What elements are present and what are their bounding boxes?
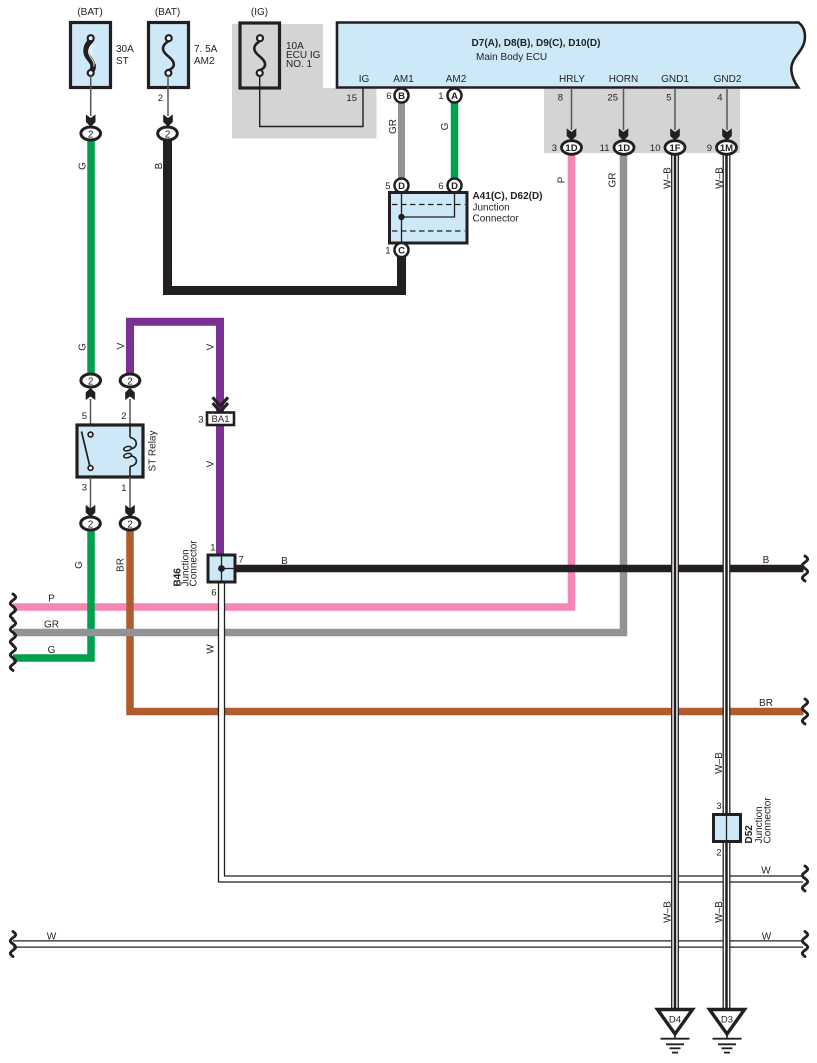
fuse 10A ECU IG NO.1 bbox=[240, 7, 321, 88]
svg-text:D: D bbox=[398, 181, 405, 192]
svg-text:W–B: W–B bbox=[663, 167, 674, 189]
svg-text:3: 3 bbox=[552, 143, 557, 154]
svg-text:BR: BR bbox=[116, 558, 127, 572]
connector BA1 with double chevron bbox=[198, 397, 234, 425]
svg-text:A41(C), D62(D): A41(C), D62(D) bbox=[473, 191, 543, 202]
svg-text:B: B bbox=[281, 556, 288, 567]
svg-text:7: 7 bbox=[239, 555, 244, 566]
svg-text:W–B: W–B bbox=[714, 901, 725, 923]
wire: fuse AM2 to connector bbox=[167, 75, 169, 116]
svg-text:(IG): (IG) bbox=[251, 7, 268, 18]
squiggle W right (upper) bbox=[802, 866, 807, 891]
junction connector D52 bbox=[714, 797, 774, 859]
svg-text:9: 9 bbox=[707, 143, 712, 154]
svg-text:W: W bbox=[762, 932, 772, 943]
svg-text:1F: 1F bbox=[669, 143, 680, 154]
svg-text:D3: D3 bbox=[721, 1015, 733, 1026]
svg-text:B: B bbox=[154, 162, 165, 169]
squiggle GR left bbox=[10, 620, 15, 645]
svg-text:G: G bbox=[74, 561, 85, 569]
svg-text:2: 2 bbox=[158, 93, 163, 104]
squiggle G left bbox=[10, 646, 15, 671]
junction connector A41(C) D62(D) bbox=[385, 179, 542, 258]
svg-text:W: W bbox=[761, 866, 771, 877]
relay coil bbox=[129, 425, 131, 438]
wire G green: fuse ST down to relay connector bbox=[87, 138, 95, 376]
svg-text:1: 1 bbox=[385, 246, 390, 257]
svg-text:V: V bbox=[116, 342, 127, 349]
svg-text:25: 25 bbox=[607, 93, 618, 104]
wire W white: full width bottom bbox=[13, 940, 803, 948]
connector 2 above relay pin5 bbox=[81, 374, 101, 387]
squiggle W bottom left bbox=[10, 932, 15, 957]
connector 3 (1D) bbox=[562, 141, 582, 155]
svg-text:Connector: Connector bbox=[189, 540, 200, 587]
svg-text:Junction: Junction bbox=[473, 203, 510, 214]
svg-text:3: 3 bbox=[716, 801, 721, 812]
svg-text:5: 5 bbox=[385, 181, 390, 192]
relay switch contact bbox=[82, 432, 91, 468]
svg-text:AM2: AM2 bbox=[446, 74, 467, 85]
svg-text:11: 11 bbox=[600, 143, 610, 154]
svg-text:3: 3 bbox=[82, 483, 87, 494]
svg-text:2: 2 bbox=[716, 848, 721, 859]
wire B black: B46 pin7 right to edge bbox=[233, 565, 804, 573]
svg-text:NO. 1: NO. 1 bbox=[286, 59, 313, 70]
ST Relay bbox=[77, 425, 159, 477]
svg-text:D: D bbox=[451, 181, 458, 192]
svg-text:Connector: Connector bbox=[763, 797, 774, 844]
svg-text:BA1: BA1 bbox=[212, 414, 230, 425]
svg-text:D4: D4 bbox=[669, 1015, 681, 1026]
svg-text:(BAT): (BAT) bbox=[155, 7, 180, 18]
svg-text:(BAT): (BAT) bbox=[77, 7, 102, 18]
wire V purple: relay pin2 up, right, down through BA1 to B46 bbox=[130, 322, 220, 556]
wire GR gray: ECU HORN down and left to edge bbox=[13, 152, 624, 633]
svg-text:6: 6 bbox=[211, 588, 216, 599]
svg-text:G: G bbox=[440, 122, 451, 130]
connector 2 below relay pin3 bbox=[81, 517, 101, 530]
svg-text:GR: GR bbox=[608, 173, 619, 188]
svg-text:30A: 30A bbox=[116, 44, 134, 55]
svg-text:G: G bbox=[48, 645, 56, 656]
svg-text:5: 5 bbox=[666, 93, 671, 104]
svg-text:GR: GR bbox=[388, 119, 399, 134]
svg-text:B: B bbox=[763, 555, 770, 566]
svg-text:A: A bbox=[451, 91, 458, 102]
svg-text:10: 10 bbox=[650, 143, 661, 154]
connector 2 above relay pin2 bbox=[120, 374, 140, 387]
svg-text:G: G bbox=[78, 343, 89, 351]
wire: fuse ST to connector bbox=[90, 75, 92, 116]
svg-text:W: W bbox=[206, 644, 217, 654]
svg-text:P: P bbox=[48, 594, 55, 605]
svg-text:1D: 1D bbox=[618, 143, 630, 154]
svg-text:BR: BR bbox=[759, 698, 773, 709]
svg-text:1: 1 bbox=[121, 483, 126, 494]
svg-text:G: G bbox=[78, 162, 89, 170]
svg-text:6: 6 bbox=[386, 91, 391, 102]
svg-text:2: 2 bbox=[121, 411, 126, 422]
connector 2 below fuse ST bbox=[81, 127, 101, 140]
svg-text:1M: 1M bbox=[720, 143, 733, 154]
fuse 7.5A AM2 bbox=[149, 7, 218, 88]
connector 2 below fuse AM2 bbox=[158, 127, 178, 140]
squiggle P left bbox=[10, 594, 15, 619]
svg-text:D7(A), D8(B), D9(C), D10(D): D7(A), D8(B), D9(C), D10(D) bbox=[472, 38, 601, 49]
svg-text:1: 1 bbox=[438, 91, 443, 102]
svg-text:GND1: GND1 bbox=[661, 74, 689, 85]
wire W-B: ECU GND1 down to ground D4 bbox=[671, 152, 679, 1011]
svg-text:W–B: W–B bbox=[714, 752, 725, 774]
svg-text:W: W bbox=[47, 932, 57, 943]
svg-text:15: 15 bbox=[346, 93, 357, 104]
wire: IG fuse to ECU pin 15 bbox=[260, 75, 363, 127]
svg-text:AM2: AM2 bbox=[194, 56, 215, 67]
ground D4 bbox=[658, 1010, 693, 1053]
svg-text:HRLY: HRLY bbox=[559, 74, 585, 85]
svg-text:GR: GR bbox=[44, 620, 59, 631]
svg-text:7. 5A: 7. 5A bbox=[194, 44, 218, 55]
svg-text:P: P bbox=[557, 176, 568, 183]
gray background block under ECU outputs bbox=[544, 88, 740, 153]
wire P pink: from ECU HRLY down and left to edge bbox=[13, 152, 572, 607]
squiggle B right bbox=[802, 556, 807, 581]
connector 11 (1D) bbox=[614, 141, 634, 155]
wire GR gray: ECU AM1 down to junction A41 pin5 bbox=[398, 101, 405, 182]
wire W-B: ECU GND2 down to ground D3 bbox=[723, 152, 731, 1011]
junction connector B46 bbox=[173, 540, 244, 599]
svg-text:W–B: W–B bbox=[663, 901, 674, 923]
svg-text:3: 3 bbox=[198, 415, 203, 426]
svg-text:5: 5 bbox=[82, 411, 87, 422]
svg-text:ST Relay: ST Relay bbox=[148, 431, 159, 472]
svg-text:1D: 1D bbox=[565, 143, 577, 154]
connector 10 (1F) bbox=[665, 141, 685, 155]
svg-text:4: 4 bbox=[717, 93, 722, 104]
wire G green: relay pin3 down then left to edge bbox=[13, 528, 91, 658]
wire BR brown: relay pin1 down then right to edge bbox=[130, 528, 804, 712]
svg-text:GND2: GND2 bbox=[714, 74, 742, 85]
gray background block around IG fuse bbox=[232, 24, 377, 139]
svg-text:IG: IG bbox=[359, 74, 370, 85]
Main Body ECU box D7-D10 bbox=[337, 23, 805, 88]
svg-text:ST: ST bbox=[116, 56, 129, 67]
wire W white: B46 pin6 down then right to edge bbox=[222, 580, 804, 879]
svg-text:C: C bbox=[398, 246, 405, 257]
svg-text:V: V bbox=[206, 343, 217, 350]
svg-text:V: V bbox=[206, 460, 217, 467]
squiggle W bottom right bbox=[802, 932, 807, 957]
ground D3 bbox=[710, 1010, 745, 1053]
svg-text:AM1: AM1 bbox=[393, 74, 414, 85]
connector 9 (1M) bbox=[717, 141, 737, 155]
svg-text:1: 1 bbox=[210, 543, 215, 554]
squiggle BR right bbox=[802, 699, 807, 724]
wire G green: ECU AM2 to junction A41 pin6 bbox=[451, 101, 459, 182]
svg-text:6: 6 bbox=[438, 181, 443, 192]
svg-text:W–B: W–B bbox=[715, 167, 726, 189]
wire relay pin5 to connector bbox=[90, 399, 92, 425]
connector 2 below relay pin1 bbox=[120, 517, 140, 530]
svg-text:B: B bbox=[398, 91, 405, 102]
fuse 30A ST bbox=[71, 7, 135, 88]
svg-text:HORN: HORN bbox=[609, 74, 638, 85]
svg-text:8: 8 bbox=[558, 93, 563, 104]
wire relay pin2 to connector bbox=[129, 399, 131, 425]
svg-text:Main Body ECU: Main Body ECU bbox=[476, 52, 547, 63]
svg-text:Connector: Connector bbox=[473, 214, 520, 225]
wire B black: fuse AM2 down, right, up to A41 pin1 bbox=[168, 138, 402, 291]
